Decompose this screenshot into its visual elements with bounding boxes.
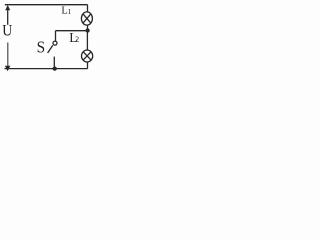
node junction below L1 [85,28,89,32]
switch S lever [48,45,53,53]
wire switch bottom contact down [53,57,55,69]
svg-text:2: 2 [75,35,79,44]
wire right: node to lamp L2 [86,31,88,50]
current arrow (up) on left wire top [5,5,10,10]
lamp L1 cross [83,14,91,23]
wire top horizontal [5,4,88,6]
node junction on bottom wire [53,66,57,70]
svg-text:1: 1 [68,7,72,16]
current arrow (down) at bottom of left wire [5,66,10,72]
wire right: L2 to bottom corner [87,62,89,69]
svg-text:S: S [37,39,46,57]
switch S contact circle [53,41,57,45]
wire branch down to switch contact [55,31,57,42]
lamp L2 bulb [82,50,93,62]
wire left upper segment into U [7,10,9,25]
lamp L1 bulb [81,12,92,25]
svg-text:U: U [2,23,12,40]
wire branch horizontal from switch to node [56,30,88,32]
wire right: L1 to node [87,25,89,31]
wire right: top corner down to lamp L1 [87,5,89,13]
wire left lower segment [7,43,9,67]
wire bottom horizontal [5,68,88,70]
lamp L2 cross [83,52,91,60]
